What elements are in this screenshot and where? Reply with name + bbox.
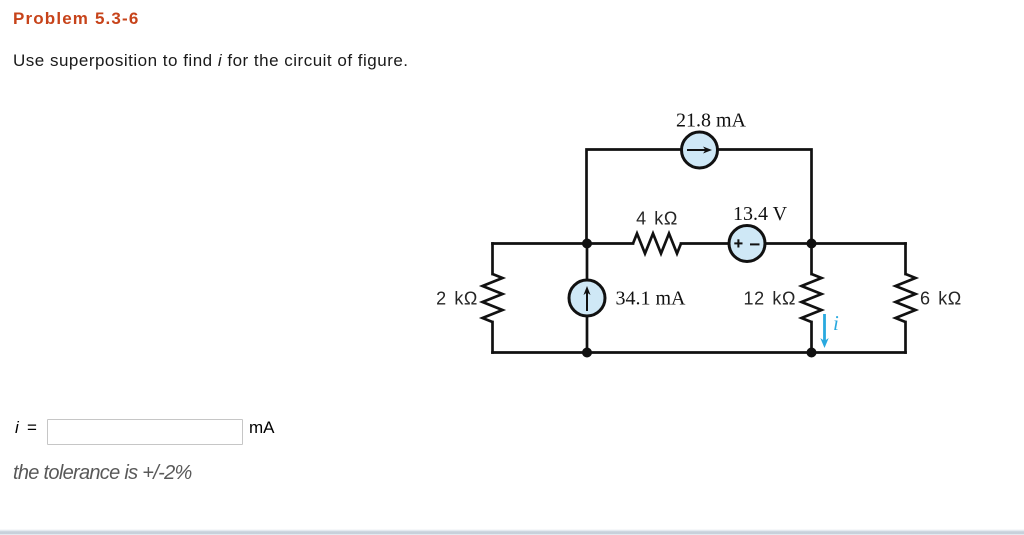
- svg-text:34.1 mA: 34.1 mA: [616, 288, 687, 310]
- svg-text:4 kΩ: 4 kΩ: [636, 209, 678, 229]
- svg-text:21.8 mA: 21.8 mA: [676, 110, 747, 132]
- svg-text:13.4 V: 13.4 V: [733, 203, 788, 225]
- svg-text:12 kΩ: 12 kΩ: [744, 289, 796, 309]
- svg-text:6 kΩ: 6 kΩ: [920, 289, 962, 309]
- svg-text:i: i: [833, 311, 839, 335]
- svg-text:2 kΩ: 2 kΩ: [436, 289, 478, 309]
